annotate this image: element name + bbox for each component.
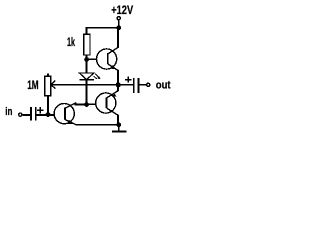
svg-text:out: out	[156, 79, 171, 91]
capacitor C2 plates	[133, 78, 135, 93]
LED D1 cathode bar	[79, 79, 93, 81]
LED D1 triangle	[79, 73, 93, 80]
node supply junction	[116, 25, 121, 30]
ground symbol	[112, 130, 126, 132]
in terminal	[19, 113, 22, 116]
wire LED anode lead	[86, 59, 88, 73]
capacitor C1 plates	[30, 107, 32, 121]
wire terminal to rail	[118, 20, 120, 27]
wire top rail	[86, 27, 119, 29]
wire ground rail	[76, 124, 119, 126]
svg-text:+12V: +12V	[111, 5, 133, 17]
capacitor C2 output + sign	[125, 76, 131, 82]
wire in terminal to C1	[23, 114, 30, 116]
LED light arrow 1	[95, 74, 101, 80]
wire Q1 emitter down to node E	[117, 70, 119, 85]
wire LED cathode lead down to node C	[86, 80, 88, 105]
capacitor C1 + sign	[37, 107, 44, 113]
wire node C to Q2 base	[87, 103, 97, 105]
wire 1M top stub	[47, 74, 49, 77]
1M wiper arrowhead	[51, 81, 56, 89]
node C junction (LED cathode / Q3 collector / Q2 base)	[84, 102, 89, 107]
wire node B to Q1 base	[87, 58, 97, 60]
transistor Q2 (PNP)	[96, 91, 118, 115]
wire feedback line to 1M wiper	[51, 84, 118, 86]
resistor 1M (variable)	[45, 76, 51, 96]
out terminal	[147, 83, 150, 86]
wire 1k bottom stub	[86, 55, 88, 59]
transistor Q1 (NPN)	[97, 47, 119, 70]
svg-text:1M: 1M	[27, 80, 38, 92]
wire node C to Q3 collector	[75, 104, 87, 106]
wire Q2 emitter up to node E	[117, 85, 119, 91]
wire Q1 collector to supply node	[117, 28, 119, 48]
svg-text:1k: 1k	[67, 37, 75, 49]
node E junction (Q1 emitter / Q2 emitter / feedback / out)	[116, 82, 121, 87]
svg-text:in: in	[5, 106, 12, 118]
wire node E to C2	[118, 84, 133, 86]
wire C1 to node N1	[37, 114, 49, 116]
+12V terminal	[117, 17, 120, 20]
wire node N1 to Q3 base	[48, 114, 55, 116]
resistor 1k	[84, 34, 90, 55]
wire ground stub	[118, 125, 120, 131]
wire Q2 collector down to ground rail	[117, 115, 119, 125]
wire C2 to out terminal	[139, 84, 146, 86]
transistor Q3 (NPN)	[54, 103, 76, 125]
wire 1M bottom lead	[47, 96, 49, 115]
node B junction (1k / LED anode / Q1 base)	[84, 57, 89, 62]
LED light arrow 2	[94, 76, 98, 79]
wire 1k top stub	[86, 27, 88, 35]
node ground junction	[116, 122, 121, 127]
node N1 junction (C1 / 1M bottom / Q3 base)	[46, 112, 51, 117]
